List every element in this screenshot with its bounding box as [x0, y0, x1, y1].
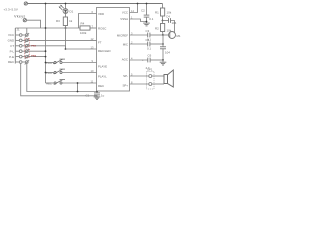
header J1	[8, 28, 29, 65]
svg-text:C4: C4	[166, 15, 170, 19]
svg-text:PLAYE: PLAYE	[98, 64, 107, 68]
svg-text:C6: C6	[148, 54, 152, 58]
svg-text:PW1: PW1	[31, 46, 37, 48]
LED D1	[59, 3, 74, 14]
svg-text:FT: FT	[11, 44, 15, 48]
pushbutton REC	[46, 80, 97, 86]
svg-text:REC: REC	[46, 82, 52, 86]
svg-text:SP-: SP-	[123, 74, 128, 78]
svg-text:PLAYL: PLAYL	[46, 71, 54, 75]
svg-text:+: +	[142, 58, 144, 62]
connector SP1	[130, 68, 165, 90]
svg-text:R3: R3	[56, 19, 60, 23]
wire VCC pin to rail	[130, 4, 138, 13]
wire ROSC line	[15, 27, 80, 29]
power terminal +3.3~5.5V	[4, 2, 28, 12]
svg-text:PLAYL: PLAYL	[98, 74, 107, 78]
svg-text:+3.3~5.5V: +3.3~5.5V	[4, 7, 18, 11]
speaker LS1	[164, 70, 173, 87]
svg-text:J1: J1	[17, 28, 20, 32]
capacitor C4	[163, 15, 177, 34]
capacitor C1	[86, 91, 105, 98]
wire VDD pin	[79, 14, 97, 29]
ground under C2	[143, 23, 150, 26]
capacitor C2	[141, 3, 154, 24]
svg-text:C2: C2	[141, 9, 145, 13]
svg-text:104: 104	[172, 21, 177, 25]
svg-text:100k: 100k	[80, 31, 87, 35]
svg-text:0.1: 0.1	[147, 47, 151, 51]
svg-text:PW2: PW2	[31, 56, 37, 58]
svg-text:104: 104	[165, 51, 170, 55]
svg-text:1u: 1u	[101, 93, 105, 97]
svg-text:R2: R2	[155, 27, 159, 31]
svg-text:C3: C3	[146, 29, 150, 33]
ground under C1	[94, 96, 101, 100]
svg-text:C1: C1	[86, 93, 90, 97]
svg-text:0.1: 0.1	[149, 17, 153, 21]
wire J1 VCC pin up to ROSC line	[26, 28, 28, 34]
wire J1 P-L stub	[28, 50, 45, 52]
svg-text:MIC: MIC	[123, 43, 128, 47]
resistor R4 ROSC	[80, 22, 90, 35]
svg-text:SP+: SP+	[122, 84, 128, 88]
svg-text:GND: GND	[8, 39, 14, 43]
svg-text:P-E: P-E	[9, 55, 14, 59]
pushbutton PLAYL	[45, 69, 97, 75]
top power rail	[27, 3, 162, 5]
svg-text:ROSC: ROSC	[98, 27, 106, 31]
svg-text:D1: D1	[70, 10, 74, 14]
wire keys rail vertical	[45, 4, 47, 84]
jumper box PW1	[25, 38, 30, 46]
svg-text:VSSA: VSSA	[120, 17, 128, 21]
svg-text:REC/LED: REC/LED	[98, 49, 111, 53]
capacitor C3	[130, 29, 164, 42]
svg-text:VDD: VDD	[98, 12, 104, 16]
wire J1 GND row to chip FT	[28, 39, 96, 41]
svg-text:MICREF: MICREF	[117, 34, 128, 38]
wire J1 REC left pin down to gnd rail B	[21, 63, 97, 95]
wire J1 REC right pin down to gnd rail A	[27, 63, 97, 91]
node rail/keys	[45, 3, 47, 5]
wire LED node down to pin13 line	[65, 28, 67, 49]
svg-text:M1: M1	[177, 34, 181, 38]
svg-text:Vkeys: Vkeys	[14, 14, 26, 18]
pushbutton PLAYE	[45, 59, 97, 65]
wire J1 FT row jog to pin13	[28, 46, 65, 49]
svg-text:FT: FT	[98, 41, 102, 45]
wire VSSA pin to gnd	[130, 19, 147, 22]
capacitor C7	[160, 47, 170, 60]
svg-text:REC: REC	[98, 84, 104, 88]
wire J1 P-E stub	[28, 56, 45, 58]
svg-text:PLAYE: PLAYE	[46, 61, 54, 65]
wire mic node vertical	[162, 35, 164, 47]
terminal Vkeys	[14, 14, 26, 22]
svg-text:R4: R4	[81, 22, 85, 26]
ground mic/agc	[160, 60, 167, 65]
resistor R1	[155, 4, 172, 21]
svg-text:1k: 1k	[69, 19, 73, 23]
svg-text:C5: C5	[146, 38, 150, 42]
capacitor C5	[130, 38, 164, 51]
resistor R2	[155, 21, 172, 36]
svg-text:VCC: VCC	[122, 11, 128, 15]
svg-text:R1: R1	[155, 11, 159, 15]
svg-text:P-L: P-L	[10, 49, 15, 53]
wire REC line to gnd rail A	[77, 83, 79, 92]
resistor R3	[56, 14, 73, 28]
svg-text:SP1: SP1	[147, 68, 153, 72]
microphone M1	[163, 32, 181, 39]
wire Vkeys to node	[26, 20, 40, 28]
svg-text:VCC: VCC	[8, 33, 14, 37]
IC U1 ISD1820	[97, 8, 130, 92]
capacitor C6 AGC	[130, 54, 164, 71]
jumper box PW2	[25, 49, 30, 58]
svg-text:REC: REC	[8, 60, 14, 64]
svg-text:AGC: AGC	[122, 58, 128, 62]
